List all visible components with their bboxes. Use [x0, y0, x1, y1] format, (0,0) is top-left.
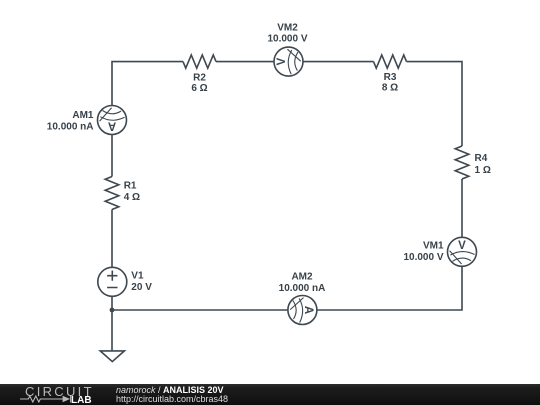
- svg-text:V1: V1: [131, 270, 144, 281]
- svg-text:V: V: [458, 240, 466, 252]
- wire node A to ground: [111, 310, 113, 351]
- resistor R2: [183, 55, 216, 68]
- svg-text:AM2: AM2: [291, 272, 313, 283]
- wire VM2 to R3: [303, 61, 374, 63]
- wire AM2 to node A: [112, 309, 288, 311]
- ammeter AM2: [288, 296, 317, 325]
- resistor R1: [105, 177, 119, 210]
- voltage source V1: [98, 267, 127, 296]
- svg-text:A: A: [108, 120, 116, 132]
- resistor R3: [374, 55, 407, 68]
- wire R3 to R4 (top-right corner): [407, 62, 463, 146]
- svg-text:8 Ω: 8 Ω: [382, 83, 398, 94]
- ammeter AM1: [98, 106, 127, 135]
- wire V1 to node A: [111, 296, 113, 310]
- svg-text:6 Ω: 6 Ω: [191, 83, 207, 94]
- wire R1 to V1: [111, 210, 113, 268]
- svg-text:A: A: [302, 306, 314, 314]
- wire R2 to VM2: [216, 61, 274, 63]
- svg-text:1 Ω: 1 Ω: [475, 165, 491, 176]
- svg-text:20 V: 20 V: [131, 282, 152, 293]
- svg-text:R2: R2: [193, 72, 206, 83]
- wire AM1 to R1: [111, 135, 113, 177]
- svg-text:VM1: VM1: [423, 240, 444, 251]
- svg-text:10.000 V: 10.000 V: [403, 252, 443, 263]
- resistor R4: [455, 146, 469, 179]
- wire VM1 to AM2 (bottom-right corner): [317, 266, 462, 310]
- wire R4 to VM1: [461, 179, 463, 237]
- svg-text:V: V: [276, 58, 288, 66]
- svg-text:10.000 V: 10.000 V: [267, 34, 307, 45]
- svg-text:R3: R3: [384, 72, 397, 83]
- CircuitLab logo circuit line (resistor + diode): [20, 395, 90, 403]
- svg-text:VM2: VM2: [277, 23, 298, 34]
- CircuitLab logo wordmark LAB: [71, 396, 92, 405]
- node A (junction dot): [110, 308, 115, 313]
- svg-text:R1: R1: [124, 181, 137, 192]
- ground: [100, 351, 124, 362]
- svg-text:R4: R4: [475, 153, 488, 164]
- svg-text:10.000 nA: 10.000 nA: [279, 283, 326, 294]
- svg-text:AM1: AM1: [72, 110, 94, 121]
- wire AM1 to R2 (top-left corner): [112, 62, 183, 106]
- svg-text:10.000 nA: 10.000 nA: [47, 122, 94, 133]
- footer title text: [116, 386, 228, 405]
- svg-text:4 Ω: 4 Ω: [124, 192, 140, 203]
- voltmeter VM1: [448, 237, 477, 266]
- CircuitLab logo wordmark CIRCUIT: [25, 387, 94, 397]
- voltmeter VM2: [274, 47, 303, 76]
- footer bar: [0, 384, 540, 405]
